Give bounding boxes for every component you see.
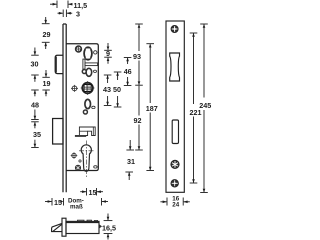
svg-text:48: 48: [31, 101, 39, 110]
svg-text:50: 50: [113, 85, 121, 94]
svg-text:15: 15: [89, 188, 97, 197]
svg-text:245: 245: [199, 101, 211, 110]
svg-text:9: 9: [106, 49, 110, 58]
svg-text:16,5: 16,5: [102, 224, 116, 233]
svg-text:35: 35: [33, 130, 41, 139]
svg-text:31: 31: [127, 157, 135, 166]
svg-text:19: 19: [43, 79, 51, 88]
svg-text:43: 43: [103, 85, 111, 94]
svg-text:15: 15: [54, 198, 62, 207]
svg-text:24: 24: [172, 201, 179, 208]
svg-text:29: 29: [43, 30, 51, 39]
svg-text:3: 3: [76, 10, 80, 19]
svg-text:187: 187: [146, 104, 158, 113]
svg-text:46: 46: [124, 67, 132, 76]
svg-text:93: 93: [133, 52, 141, 61]
svg-text:92: 92: [134, 116, 142, 125]
svg-text:maß: maß: [70, 204, 83, 211]
svg-text:30: 30: [31, 60, 39, 69]
